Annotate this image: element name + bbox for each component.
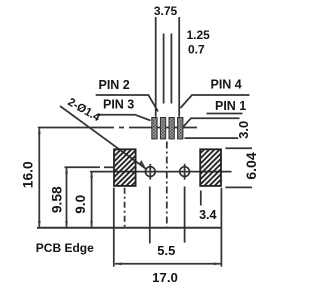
svg-text:PIN 1: PIN 1 xyxy=(215,99,246,113)
svg-text:1.25: 1.25 xyxy=(187,28,211,42)
svg-text:9.0: 9.0 xyxy=(73,195,88,214)
svg-text:5.5: 5.5 xyxy=(157,243,175,258)
svg-text:PCB Edge: PCB Edge xyxy=(36,241,94,255)
svg-text:6.04: 6.04 xyxy=(243,152,259,179)
svg-text:3.75: 3.75 xyxy=(154,4,178,18)
svg-text:PIN 3: PIN 3 xyxy=(103,98,134,112)
svg-text:9.58: 9.58 xyxy=(50,186,65,213)
svg-text:17.0: 17.0 xyxy=(152,270,178,285)
svg-text:PIN 4: PIN 4 xyxy=(211,77,242,91)
svg-text:16.0: 16.0 xyxy=(20,161,35,188)
svg-text:0.7: 0.7 xyxy=(188,43,205,57)
svg-text:PIN 2: PIN 2 xyxy=(99,78,130,92)
svg-text:3.4: 3.4 xyxy=(199,208,216,222)
svg-text:3.0: 3.0 xyxy=(236,121,251,139)
svg-text:2-Ø1.4: 2-Ø1.4 xyxy=(66,96,103,124)
